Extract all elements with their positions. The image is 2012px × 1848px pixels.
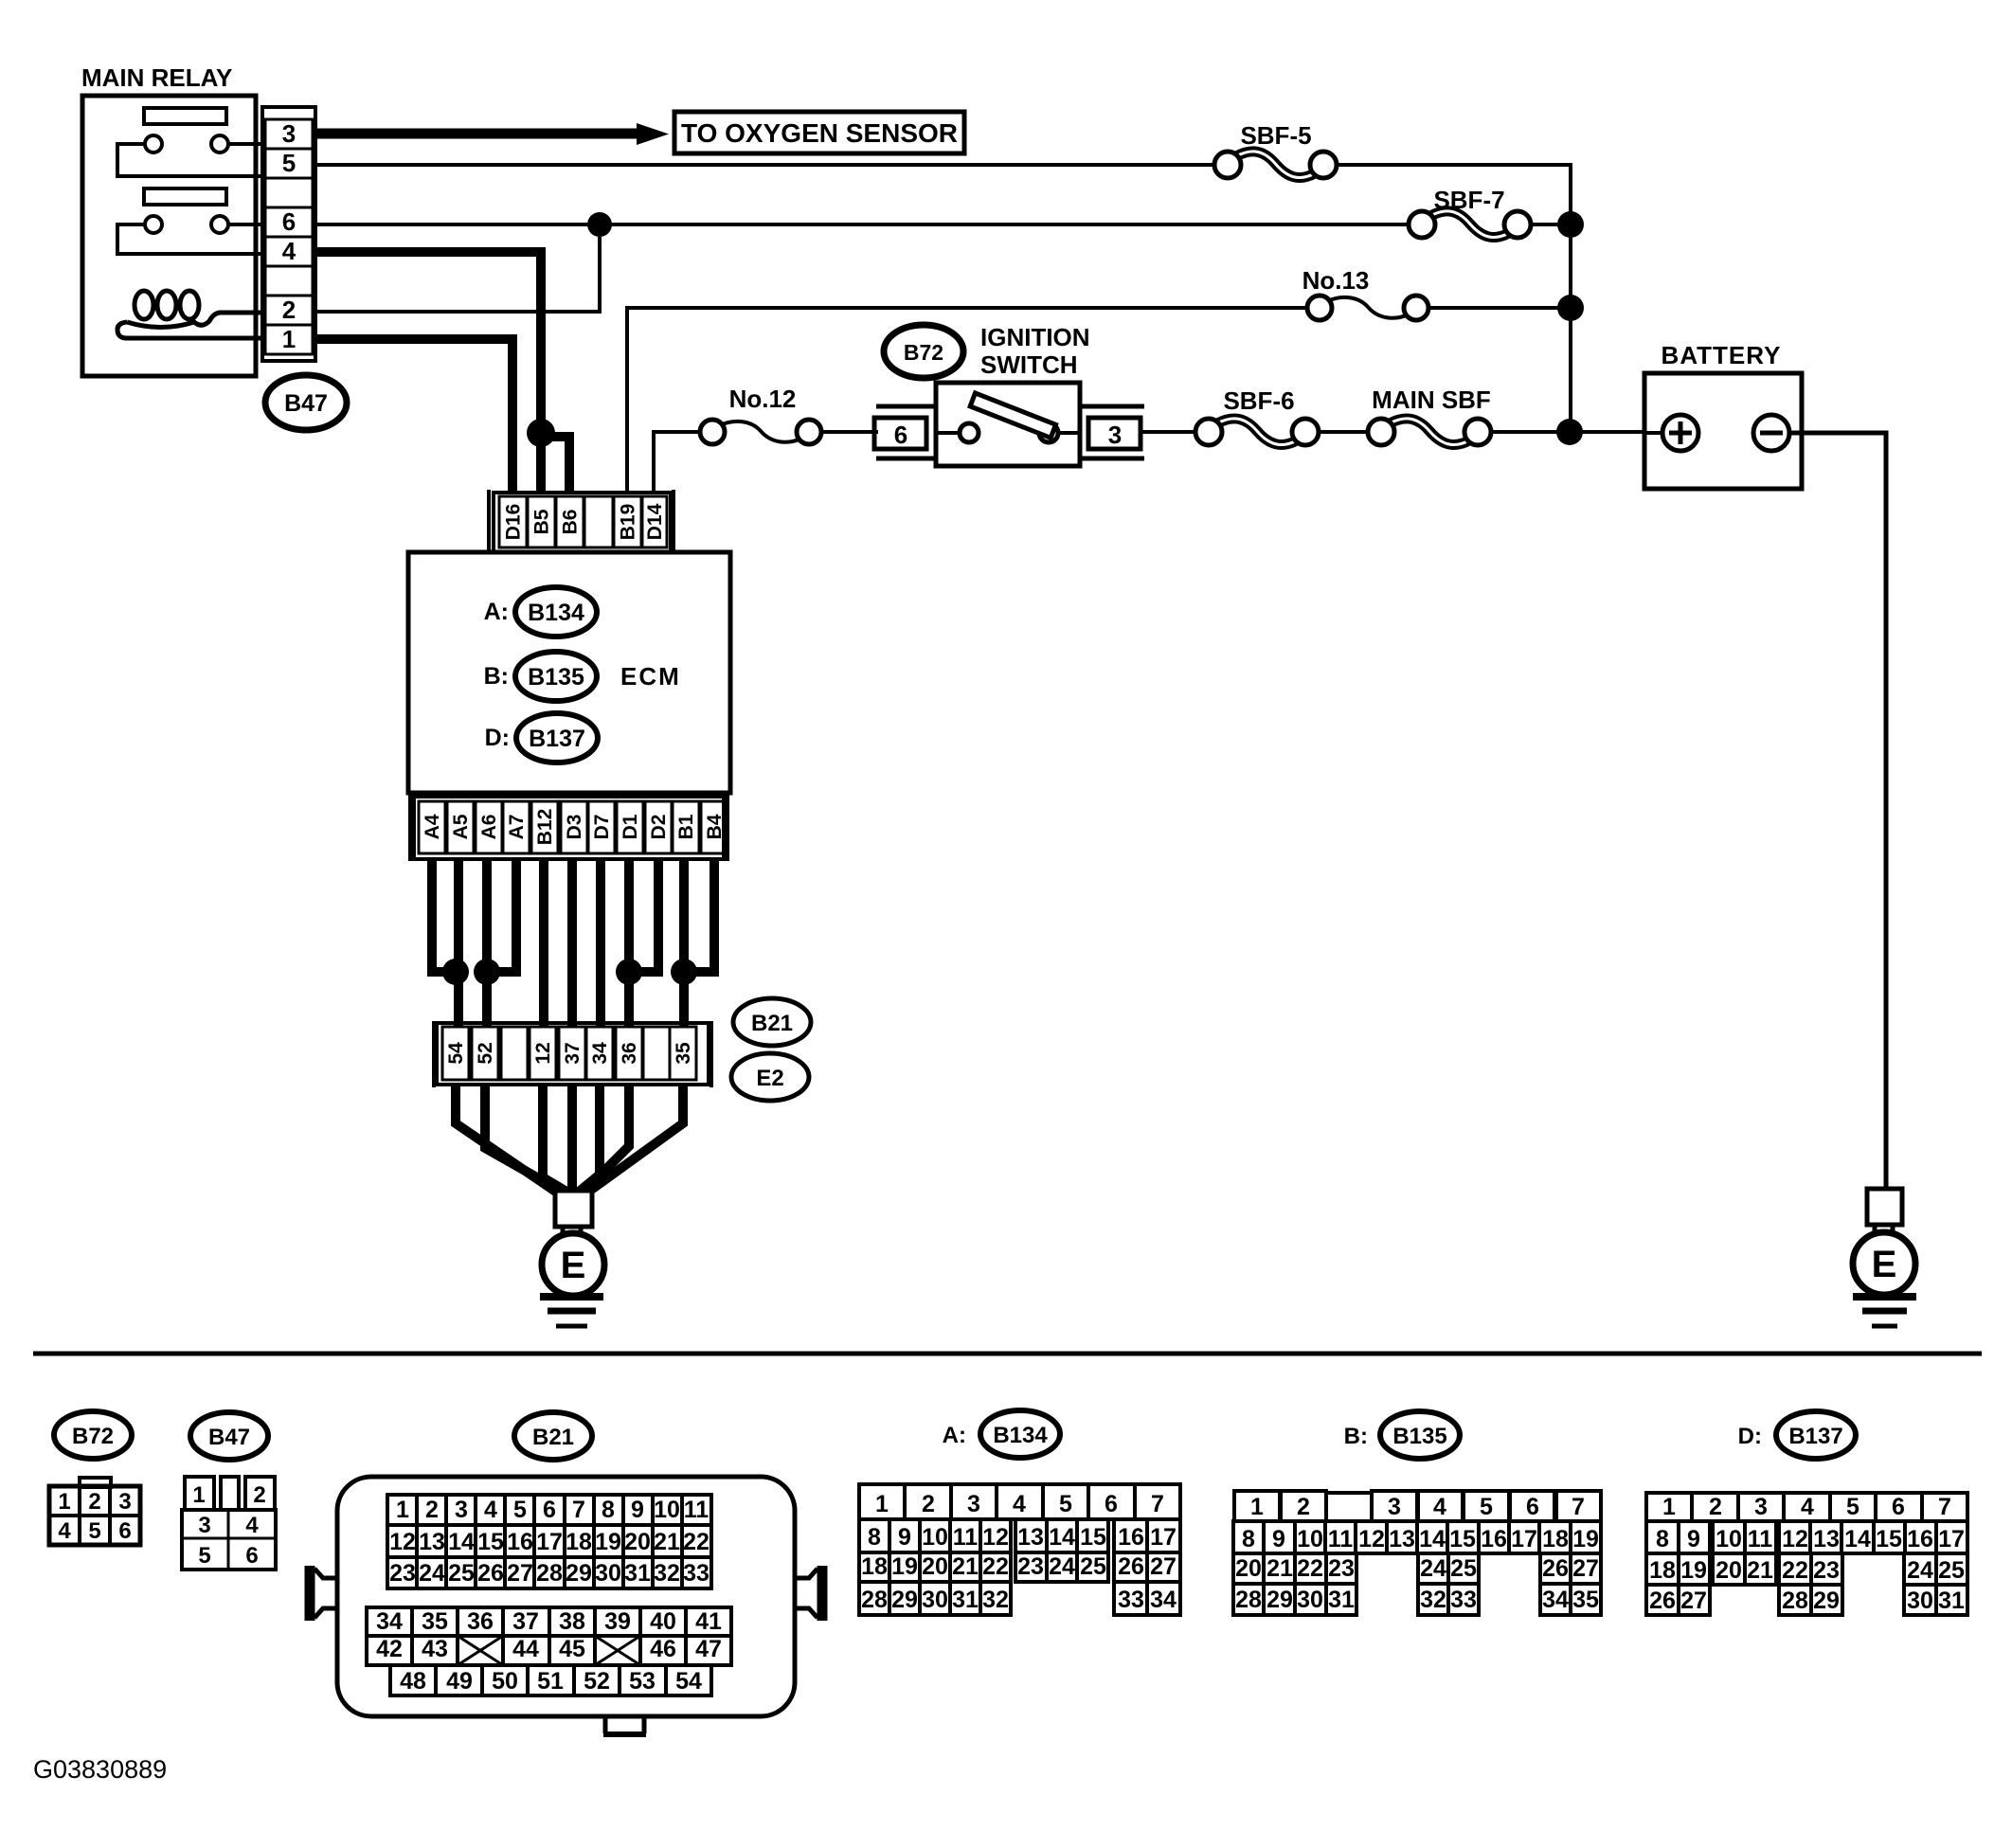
svg-text:53: 53: [629, 1668, 656, 1695]
ECM box: [408, 552, 730, 793]
svg-text:5: 5: [1846, 1494, 1859, 1520]
svg-text:B72: B72: [904, 340, 943, 365]
separator line: [33, 1352, 1982, 1356]
svg-text:SBF-5: SBF-5: [1240, 121, 1311, 150]
ECM pin A4 cell: [419, 801, 445, 853]
relay contact 2 left terminal: [145, 216, 162, 233]
ground bars left: [540, 1293, 603, 1301]
svg-text:10: 10: [1716, 1526, 1742, 1552]
svg-text:7: 7: [572, 1497, 585, 1523]
wire contact2 right to pin 6: [228, 223, 262, 226]
svg-text:52: 52: [584, 1668, 610, 1695]
svg-text:19: 19: [1572, 1526, 1599, 1552]
wire No.12 to ignition switch pin6: [821, 430, 878, 434]
E2 oval label: [731, 1053, 809, 1101]
svg-text:3: 3: [455, 1497, 468, 1523]
wire battery minus to ground: [1789, 433, 1886, 1191]
svg-text:41: 41: [695, 1608, 722, 1635]
svg-text:14: 14: [1049, 1524, 1075, 1551]
svg-text:22: 22: [1782, 1557, 1808, 1584]
svg-text:1: 1: [1250, 1494, 1264, 1520]
svg-text:16: 16: [1118, 1524, 1144, 1551]
svg-text:B21: B21: [532, 1425, 574, 1450]
connector pin 36 cell: [616, 1027, 642, 1080]
svg-text:5: 5: [513, 1497, 527, 1523]
wire SBF-6 to MAIN SBF: [1319, 430, 1368, 434]
svg-text:8: 8: [602, 1497, 615, 1523]
svg-text:21: 21: [1266, 1555, 1293, 1582]
svg-text:25: 25: [1938, 1557, 1965, 1584]
svg-text:6: 6: [282, 207, 296, 236]
ECM pin B6 cell: [556, 496, 584, 547]
svg-text:MAIN SBF: MAIN SBF: [1372, 386, 1491, 414]
bus dot at No.13: [1557, 295, 1584, 321]
B21 left tab: [305, 1566, 315, 1621]
svg-text:10: 10: [654, 1497, 680, 1523]
fuse SBF-7: [1430, 211, 1509, 238]
svg-text:SBF-6: SBF-6: [1223, 386, 1294, 415]
svg-text:B135: B135: [528, 664, 584, 691]
ECM pin B1 cell: [673, 801, 699, 853]
svg-text:47: 47: [695, 1636, 722, 1662]
svg-text:36: 36: [467, 1608, 494, 1635]
blank cell: [265, 178, 313, 207]
svg-text:3: 3: [1108, 421, 1122, 449]
relay contact 2 right terminal: [211, 216, 228, 233]
svg-text:19: 19: [595, 1529, 621, 1555]
ECM pin A6 cell: [476, 801, 502, 853]
svg-text:24: 24: [1420, 1555, 1446, 1582]
bus dot at battery feed: [1556, 419, 1583, 445]
svg-text:BATTERY: BATTERY: [1662, 341, 1782, 369]
ECM blank cell: [584, 496, 613, 547]
wire contact1 right to pin 3: [228, 142, 262, 146]
ignition switch right contact: [1039, 423, 1058, 442]
ground bars right: [1853, 1293, 1916, 1301]
svg-text:18: 18: [861, 1553, 888, 1580]
svg-text:39: 39: [604, 1608, 631, 1635]
connector pin 37 cell: [559, 1027, 585, 1080]
svg-text:19: 19: [1680, 1557, 1707, 1584]
svg-text:28: 28: [1782, 1588, 1808, 1614]
svg-text:D:: D:: [1738, 1424, 1762, 1449]
svg-text:10: 10: [922, 1524, 948, 1551]
svg-text:20: 20: [1716, 1557, 1742, 1584]
wire A5 to pin 54: [454, 859, 463, 1027]
ECM bottom connector: [408, 795, 412, 861]
svg-text:24: 24: [419, 1560, 445, 1587]
svg-text:D2: D2: [648, 815, 670, 840]
svg-text:15: 15: [477, 1529, 504, 1555]
svg-text:6: 6: [1105, 1491, 1118, 1517]
svg-text:6: 6: [118, 1518, 131, 1544]
svg-text:20: 20: [624, 1529, 651, 1555]
svg-text:3: 3: [282, 119, 296, 148]
svg-text:2: 2: [922, 1491, 935, 1517]
wire A4 to junction: [432, 859, 445, 972]
blank cell: [265, 266, 313, 296]
svg-text:33: 33: [683, 1560, 710, 1587]
B137 connector pinout: [1646, 1493, 1692, 1521]
relay contact 1 right terminal: [211, 135, 228, 153]
svg-text:17: 17: [536, 1529, 563, 1555]
junction dot D1/D2: [616, 959, 642, 985]
svg-text:25: 25: [448, 1560, 475, 1587]
svg-text:34: 34: [1542, 1587, 1569, 1613]
branch to ECM B6: [541, 437, 569, 493]
connector blank cell: [501, 1027, 528, 1080]
bus dot at SBF-7: [1557, 211, 1584, 238]
connector pin 35 cell: [670, 1027, 696, 1080]
fuse MAIN SBF: [1390, 419, 1469, 445]
svg-text:B72: B72: [72, 1424, 114, 1449]
svg-text:26: 26: [477, 1560, 504, 1587]
fuse SBF-5: [1236, 152, 1315, 178]
svg-text:4: 4: [1013, 1491, 1026, 1517]
svg-text:11: 11: [684, 1497, 710, 1523]
svg-text:B47: B47: [208, 1425, 250, 1450]
pin 2 cell: [265, 296, 313, 325]
svg-text:3: 3: [967, 1491, 980, 1517]
pin 3 cell: [265, 119, 313, 149]
junction dot wire6/wire2: [587, 212, 612, 237]
svg-text:5: 5: [1059, 1491, 1072, 1517]
svg-text:B12: B12: [534, 809, 556, 846]
junction dot pin4 wire: [527, 419, 555, 447]
svg-text:30: 30: [922, 1587, 948, 1613]
svg-text:SBF-7: SBF-7: [1433, 186, 1504, 214]
ECM pin B5 cell: [528, 496, 555, 547]
svg-text:12: 12: [532, 1042, 554, 1064]
svg-text:29: 29: [1266, 1587, 1293, 1613]
svg-text:14: 14: [1419, 1526, 1446, 1552]
svg-text:B6: B6: [560, 510, 582, 535]
B21 right tab: [817, 1566, 828, 1621]
svg-text:2: 2: [88, 1489, 100, 1515]
svg-text:13: 13: [1389, 1526, 1415, 1552]
svg-text:12: 12: [1782, 1526, 1808, 1552]
svg-text:23: 23: [389, 1560, 416, 1587]
svg-text:20: 20: [1235, 1555, 1262, 1582]
B134 connector pinout: [859, 1484, 905, 1519]
svg-text:48: 48: [400, 1668, 426, 1695]
svg-text:6: 6: [1526, 1494, 1539, 1520]
svg-text:1: 1: [396, 1497, 409, 1523]
svg-text:5: 5: [1480, 1494, 1493, 1520]
svg-text:9: 9: [898, 1524, 911, 1551]
svg-text:5: 5: [88, 1518, 100, 1544]
svg-text:17: 17: [1938, 1526, 1965, 1552]
svg-text:4: 4: [484, 1497, 497, 1523]
B135 connector pinout: [1326, 1491, 1374, 1495]
svg-text:51: 51: [537, 1668, 564, 1695]
svg-text:23: 23: [1328, 1555, 1355, 1582]
B47 connector pinout: [185, 1477, 214, 1510]
svg-text:31: 31: [952, 1587, 979, 1613]
svg-text:1: 1: [58, 1489, 70, 1515]
svg-text:15: 15: [1876, 1526, 1902, 1552]
svg-text:G03830889: G03830889: [33, 1755, 167, 1784]
wire pin1 thick down to ECM D16: [315, 339, 512, 493]
svg-text:52: 52: [475, 1042, 496, 1064]
svg-text:18: 18: [566, 1529, 592, 1555]
svg-text:E: E: [561, 1245, 586, 1286]
B72 connector oval: [54, 1411, 132, 1459]
svg-text:6: 6: [894, 421, 907, 449]
svg-text:21: 21: [654, 1529, 680, 1555]
wire pin6 to SBF-7: [315, 223, 1409, 226]
svg-text:33: 33: [1118, 1587, 1144, 1613]
svg-text:8: 8: [1242, 1526, 1255, 1552]
svg-text:11: 11: [953, 1524, 979, 1551]
svg-text:2: 2: [1709, 1494, 1722, 1520]
svg-text:29: 29: [891, 1587, 918, 1613]
svg-text:27: 27: [1680, 1588, 1707, 1614]
svg-text:D7: D7: [591, 815, 613, 840]
wire No.13 to bus: [1428, 306, 1571, 310]
svg-text:13: 13: [1813, 1526, 1840, 1552]
ground funnel wires: [456, 1085, 557, 1193]
svg-text:A7: A7: [506, 815, 528, 840]
svg-text:D1: D1: [620, 814, 641, 839]
svg-text:17: 17: [1511, 1526, 1537, 1552]
ignition switch lever: [970, 393, 1055, 438]
svg-text:35: 35: [422, 1608, 448, 1635]
svg-text:43: 43: [422, 1636, 448, 1662]
svg-text:26: 26: [1542, 1555, 1569, 1582]
svg-text:2: 2: [1297, 1494, 1310, 1520]
wire pin5 to SBF-5: [315, 163, 1214, 167]
junction dot B1/B4: [671, 959, 697, 985]
svg-text:15: 15: [1449, 1526, 1476, 1552]
wire SBF-5 to right bus: [1337, 163, 1572, 167]
svg-text:4: 4: [1433, 1494, 1446, 1520]
svg-text:22: 22: [982, 1553, 1009, 1580]
ECM pin B4 cell: [701, 801, 728, 853]
svg-text:17: 17: [1150, 1524, 1177, 1551]
svg-text:45: 45: [559, 1636, 585, 1662]
ECM pin B12 cell: [531, 801, 558, 853]
wire D1 to pin 36: [624, 859, 634, 1027]
svg-text:26: 26: [1118, 1553, 1144, 1580]
wire pin4 thick down to ECM B5: [315, 252, 541, 493]
svg-text:30: 30: [595, 1560, 621, 1587]
B21/E2 connector: [432, 1021, 436, 1087]
ignition switch left contact: [960, 423, 979, 442]
svg-text:1: 1: [192, 1482, 205, 1508]
svg-text:33: 33: [1450, 1587, 1477, 1613]
svg-text:54: 54: [445, 1042, 467, 1065]
svg-text:16: 16: [1907, 1526, 1933, 1552]
svg-text:5: 5: [282, 149, 296, 177]
main relay box: [82, 96, 256, 376]
svg-text:44: 44: [512, 1636, 539, 1662]
fuse SBF-6: [1217, 419, 1297, 445]
svg-text:6: 6: [245, 1543, 258, 1569]
svg-text:27: 27: [507, 1560, 533, 1587]
svg-text:19: 19: [891, 1553, 918, 1580]
ECM pin A7 cell: [503, 801, 530, 853]
svg-text:9: 9: [1272, 1526, 1285, 1552]
svg-text:4: 4: [58, 1518, 71, 1544]
svg-text:38: 38: [559, 1608, 585, 1635]
TO OXYGEN SENSOR box: [674, 112, 964, 153]
svg-text:31: 31: [1328, 1587, 1355, 1613]
svg-text:24: 24: [1907, 1557, 1933, 1584]
svg-text:D3: D3: [564, 815, 585, 840]
svg-text:18: 18: [1542, 1526, 1569, 1552]
pin 6 cell: [265, 207, 313, 237]
wire ECM D14 up to No.12 fuse: [654, 432, 700, 493]
svg-text:32: 32: [654, 1560, 680, 1587]
svg-text:12: 12: [982, 1524, 1009, 1551]
svg-text:30: 30: [1907, 1588, 1933, 1614]
B21 oval label: [733, 998, 811, 1046]
svg-text:40: 40: [650, 1608, 676, 1635]
svg-text:37: 37: [562, 1042, 584, 1064]
wire contact2 left to pin 4: [117, 224, 262, 254]
wire pin3 thick arrow to oxygen sensor: [315, 129, 640, 139]
svg-text:D:: D:: [485, 725, 510, 751]
svg-text:B135: B135: [1392, 1424, 1446, 1449]
B47 oval label: [265, 375, 347, 430]
svg-text:B137: B137: [1788, 1424, 1842, 1449]
ground E circle left: [542, 1233, 604, 1296]
svg-text:SWITCH: SWITCH: [980, 350, 1078, 379]
ECM pin D16 cell: [499, 496, 527, 547]
svg-text:4: 4: [245, 1513, 259, 1538]
connector blank cell: [643, 1027, 670, 1080]
B21 pin grid rows 1-33: [387, 1495, 417, 1525]
ECM pin D14 cell: [642, 496, 667, 547]
svg-text:B137: B137: [529, 726, 585, 752]
svg-text:49: 49: [446, 1668, 473, 1695]
wire B1 to pin 35: [679, 859, 689, 1027]
B72 oval label: [884, 325, 963, 378]
svg-text:15: 15: [1080, 1524, 1106, 1551]
svg-text:14: 14: [1844, 1526, 1871, 1552]
svg-text:7: 7: [1938, 1494, 1951, 1520]
svg-text:3: 3: [198, 1513, 210, 1538]
battery plus terminal: [1662, 415, 1698, 451]
svg-text:No.13: No.13: [1302, 266, 1370, 295]
svg-text:B:: B:: [484, 663, 509, 690]
svg-text:34: 34: [376, 1608, 403, 1635]
svg-text:16: 16: [1481, 1526, 1507, 1552]
junction dot A6/A7: [474, 959, 500, 985]
ignition switch pin 3 box: [1081, 404, 1144, 409]
svg-text:E2: E2: [756, 1066, 783, 1091]
svg-text:27: 27: [1150, 1553, 1177, 1580]
connector pin 52 cell: [472, 1027, 498, 1080]
svg-text:2: 2: [425, 1497, 439, 1523]
fuse No.13: [1327, 297, 1409, 318]
wire pin2 up to wire6 junction: [315, 237, 600, 312]
B21 connector oval: [514, 1412, 592, 1460]
svg-text:7: 7: [1572, 1494, 1585, 1520]
svg-text:11: 11: [1748, 1526, 1773, 1552]
svg-text:35: 35: [673, 1042, 694, 1065]
svg-text:36: 36: [619, 1042, 640, 1064]
svg-text:24: 24: [1049, 1553, 1075, 1580]
svg-text:D14: D14: [644, 503, 666, 540]
svg-text:IGNITION: IGNITION: [980, 323, 1090, 351]
B21 pin grid rows 48-54: [390, 1665, 436, 1695]
ground connector square right: [1867, 1189, 1902, 1225]
ECM pin D2 cell: [645, 801, 672, 853]
relay contact 1 left terminal: [145, 135, 162, 153]
svg-text:21: 21: [952, 1553, 979, 1580]
svg-text:23: 23: [1017, 1553, 1044, 1580]
junction dot A4/A5: [442, 959, 469, 985]
svg-text:12: 12: [1358, 1526, 1385, 1552]
connector pin 54 cell: [442, 1027, 469, 1080]
svg-text:46: 46: [650, 1636, 676, 1662]
svg-text:8: 8: [868, 1524, 881, 1551]
svg-text:6: 6: [543, 1497, 556, 1523]
svg-text:8: 8: [1656, 1526, 1669, 1552]
switch internal wires: [936, 431, 960, 435]
svg-text:27: 27: [1572, 1555, 1599, 1582]
wire pin3 box to SBF-6: [1142, 430, 1196, 434]
svg-text:12: 12: [389, 1529, 416, 1555]
ignition switch box: [936, 383, 1080, 466]
wire contact1 left to pin 5: [117, 144, 262, 176]
ECM pin D1 cell: [617, 801, 643, 853]
svg-text:ECM: ECM: [620, 662, 681, 691]
connector pin 34 cell: [586, 1027, 613, 1080]
svg-text:28: 28: [1235, 1587, 1262, 1613]
B21 pin grid rows 34-47: [367, 1607, 412, 1636]
svg-text:10: 10: [1297, 1526, 1323, 1552]
svg-text:50: 50: [492, 1668, 518, 1695]
svg-text:35: 35: [1572, 1587, 1599, 1613]
wire A6 to pin 52: [482, 859, 492, 1027]
svg-text:28: 28: [861, 1587, 888, 1613]
B72 connector pinout: [80, 1478, 111, 1487]
svg-text:25: 25: [1080, 1553, 1106, 1580]
pin 4 cell: [265, 237, 313, 266]
svg-text:A4: A4: [422, 814, 443, 839]
svg-text:28: 28: [536, 1560, 563, 1587]
B21 connector body: [337, 1477, 795, 1716]
svg-text:18: 18: [1649, 1557, 1676, 1584]
pin 5 cell: [265, 149, 313, 178]
wire A7 to junction: [499, 859, 516, 972]
svg-text:B19: B19: [618, 504, 639, 541]
svg-text:32: 32: [1420, 1587, 1446, 1613]
svg-text:6: 6: [1892, 1494, 1905, 1520]
ECM pin A5 cell: [447, 801, 474, 853]
svg-text:32: 32: [982, 1587, 1009, 1613]
ECM pin D7 cell: [588, 801, 615, 853]
svg-text:A:: A:: [484, 599, 509, 625]
svg-text:B:: B:: [1344, 1424, 1368, 1449]
svg-text:4: 4: [1801, 1494, 1814, 1520]
svg-text:2: 2: [282, 296, 296, 324]
battery box: [1644, 373, 1802, 489]
svg-text:1: 1: [1662, 1494, 1676, 1520]
pin 1 cell: [265, 325, 313, 354]
svg-text:20: 20: [922, 1553, 948, 1580]
ground E circle right: [1853, 1232, 1915, 1295]
svg-text:A6: A6: [478, 815, 500, 840]
svg-text:22: 22: [1297, 1555, 1323, 1582]
svg-text:9: 9: [1687, 1526, 1700, 1552]
svg-text:34: 34: [589, 1042, 611, 1065]
B47 connector oval: [190, 1412, 268, 1460]
svg-text:54: 54: [675, 1668, 702, 1695]
